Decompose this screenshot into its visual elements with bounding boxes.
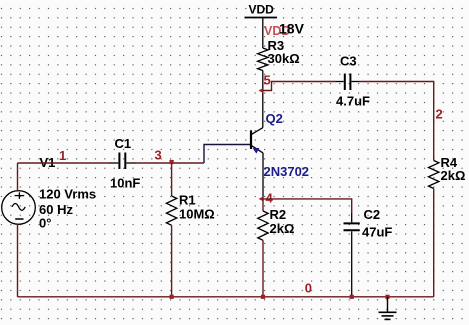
wire node5 to C3 — [263, 82, 336, 91]
wire junction to R1 — [171, 163, 173, 196]
svg-text:1: 1 — [59, 148, 66, 163]
wire R2 to bottom rail — [262, 240, 264, 296]
svg-text:47uF: 47uF — [362, 225, 392, 240]
svg-text:3: 3 — [155, 148, 162, 163]
svg-text:18V: 18V — [279, 21, 305, 37]
wire R4 to bottom rail — [433, 189, 435, 297]
svg-text:10MΩ: 10MΩ — [179, 207, 215, 222]
node 4 — [259, 190, 274, 205]
svg-text:Q2: Q2 — [266, 111, 283, 126]
capacitor C3 — [336, 54, 370, 109]
svg-text:2N3702: 2N3702 — [264, 164, 310, 179]
svg-text:4.7uF: 4.7uF — [336, 94, 370, 109]
wire V1 to C1 — [18, 162, 110, 164]
ground — [379, 297, 397, 320]
resistor R4 — [429, 155, 466, 189]
node 5 — [259, 73, 271, 94]
svg-text:5: 5 — [264, 73, 271, 88]
wire V1 top — [17, 163, 19, 191]
wire V1 bottom — [17, 224, 19, 297]
svg-text:VDD: VDD — [249, 2, 275, 16]
svg-text:30kΩ: 30kΩ — [268, 51, 300, 66]
wire base of Q2 — [204, 145, 250, 164]
svg-text:C1: C1 — [115, 136, 132, 151]
resistor R3 — [258, 38, 300, 71]
wire C1 to base step — [136, 162, 204, 164]
junction R2 at rail — [261, 295, 265, 299]
svg-text:C3: C3 — [340, 54, 357, 69]
capacitor C2 — [344, 207, 393, 297]
junction R1 at rail — [170, 295, 174, 299]
resistor R2 — [258, 207, 295, 240]
wire R1 to bottom rail — [171, 225, 173, 296]
wire bottom rail — [18, 296, 434, 298]
svg-text:4: 4 — [266, 190, 274, 205]
wire C3 to R4 — [360, 82, 434, 161]
svg-text:2kΩ: 2kΩ — [270, 221, 295, 236]
svg-text:10nF: 10nF — [110, 176, 140, 191]
junction ground at rail — [385, 295, 389, 299]
power VDD symbol — [245, 2, 278, 48]
wire R3 to Q2 collector — [262, 71, 264, 128]
svg-text:120 Vrms: 120 Vrms — [39, 187, 96, 202]
capacitor C1 — [109, 136, 140, 191]
AC source V1 — [2, 191, 36, 225]
svg-text:R1: R1 — [179, 193, 196, 208]
wire node4 to R2 — [262, 199, 264, 211]
svg-text:0: 0 — [305, 280, 312, 295]
svg-text:2kΩ: 2kΩ — [441, 168, 466, 183]
wire node4 to C2 — [263, 199, 352, 213]
svg-text:0°: 0° — [39, 216, 51, 231]
svg-text:C2: C2 — [364, 207, 381, 222]
svg-text:2: 2 — [436, 107, 443, 122]
svg-text:R2: R2 — [270, 207, 287, 222]
junction C2 at rail — [350, 295, 354, 299]
resistor R1 — [166, 193, 214, 226]
junction node 3 — [170, 160, 174, 164]
transistor Q2 — [251, 128, 263, 199]
